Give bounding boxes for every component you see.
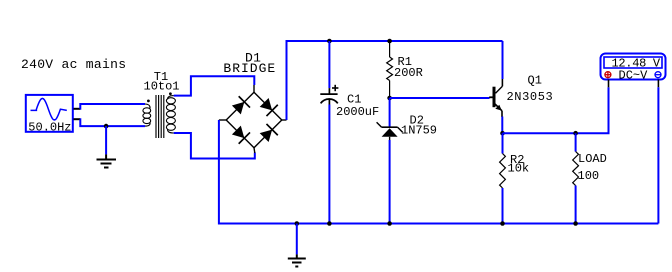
svg-text:BRIDGE: BRIDGE	[223, 61, 276, 76]
ground symbol left	[97, 154, 117, 167]
voltmeter minus pin	[657, 80, 659, 88]
svg-text:LOAD: LOAD	[578, 152, 607, 166]
wire source bottom to transformer primary bottom	[80, 119, 145, 126]
svg-text:200R: 200R	[394, 66, 423, 80]
wire emitter down to node	[501, 117, 503, 134]
AC source terminal pin 1	[74, 108, 81, 110]
voltmeter M1 body	[601, 54, 666, 80]
wire junction to ground	[105, 126, 107, 154]
AC source sine wave	[31, 98, 67, 120]
svg-text:2000uF: 2000uF	[336, 105, 379, 119]
bridge diode bottom-right	[258, 124, 277, 143]
svg-text:50.0Hz: 50.0Hz	[28, 121, 71, 135]
svg-text:Q1: Q1	[528, 74, 542, 88]
node top bus at R1	[387, 39, 392, 44]
wire LOAD to bottom bus	[575, 186, 577, 224]
transistor Q1 symbol	[489, 79, 502, 117]
svg-text:1N759: 1N759	[401, 124, 437, 138]
svg-text:240V ac mains: 240V ac mains	[21, 57, 126, 72]
node bottom bus ground tap	[295, 221, 300, 226]
wire meter minus to bottom bus	[657, 87, 659, 223]
svg-text:2N3053: 2N3053	[507, 90, 554, 104]
wire top bus to capacitor C1	[328, 41, 330, 88]
transformer T1 primary winding	[143, 104, 151, 126]
voltmeter plus terminal	[605, 72, 611, 78]
svg-text:10to1: 10to1	[144, 80, 180, 94]
bridge diode top-left	[231, 96, 250, 115]
voltmeter minus terminal	[655, 72, 661, 78]
voltmeter plus pin	[608, 80, 610, 88]
node bottom bus at R2	[500, 221, 505, 226]
node emitter junction	[500, 131, 505, 136]
node R1 bottom / base junction	[387, 96, 392, 101]
capacitor C1 plus sign	[332, 85, 338, 91]
zener diode D2	[377, 122, 403, 140]
wire bridge left corner to bottom bus	[219, 120, 659, 224]
node top bus at C1	[327, 39, 332, 44]
wire source top to transformer primary top	[80, 104, 145, 109]
resistor R1	[387, 41, 393, 98]
bridge diode bottom-left	[231, 124, 250, 143]
capacitor C1 polarized symbol	[320, 88, 338, 104]
voltmeter display window	[604, 57, 662, 68]
AC source V1 box	[26, 95, 73, 132]
wire secondary bottom to bridge bottom corner	[174, 133, 255, 159]
wire R2 to bottom bus	[502, 188, 504, 224]
wire zener D2 to bottom bus	[389, 140, 391, 224]
svg-text:10k: 10k	[508, 162, 530, 176]
svg-text:100: 100	[578, 169, 600, 183]
node bottom bus at D2	[387, 221, 392, 226]
node junction on primary bottom wire	[104, 124, 109, 129]
resistor LOAD	[575, 133, 577, 151]
wire secondary top to bridge top corner	[174, 76, 255, 95]
transformer T1 core	[156, 95, 164, 138]
transformer T1 secondary phase dot	[169, 92, 172, 95]
node load top junction	[573, 131, 578, 136]
bridge rectifier D1 diamond	[219, 85, 287, 153]
transformer T1 secondary winding	[166, 96, 175, 133]
ground symbol center	[288, 254, 306, 266]
node bottom bus at LOAD	[573, 221, 578, 226]
wire emitter node to meter plus	[503, 87, 609, 133]
svg-text:DC~V: DC~V	[619, 69, 649, 83]
wire zener D2 branch upper	[389, 98, 391, 127]
wire top bus down to collector	[502, 41, 504, 79]
bridge diode top-right	[258, 97, 277, 116]
wire bus to ground center	[296, 224, 298, 255]
wire bridge right corner to top bus	[287, 41, 503, 120]
AC source terminal pin 2	[74, 118, 81, 120]
resistor R2	[502, 133, 504, 153]
transformer T1 primary phase dot	[147, 100, 150, 103]
wire capacitor C1 to bottom bus	[328, 105, 330, 224]
node bottom bus at C1	[327, 221, 332, 226]
wire base node to transistor Q1 base	[390, 97, 490, 99]
